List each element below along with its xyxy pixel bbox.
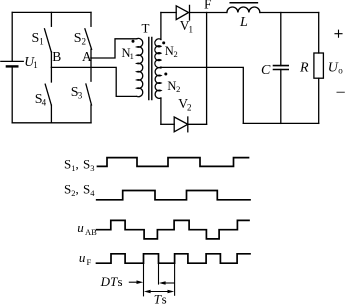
svg-text:R: R: [299, 61, 309, 76]
waveform S1 S3: [98, 158, 249, 167]
wire bottom rail left bridge: [12, 122, 91, 124]
wire V1 cathode to L: [190, 12, 227, 14]
svg-text:N: N: [167, 79, 176, 93]
wire top rail left bridge: [12, 11, 91, 13]
wire left rail lower: [11, 66, 13, 122]
svg-text:2: 2: [176, 84, 180, 94]
svg-text:T: T: [154, 292, 162, 306]
arrowhead Ts right: [168, 290, 175, 294]
wire node A to primary top: [91, 39, 137, 58]
battery U1 long plate: [1, 60, 24, 62]
waveform label uF: [79, 250, 92, 267]
svg-text:u: u: [79, 250, 86, 265]
svg-text:S: S: [64, 182, 71, 197]
DTs right arrow: [162, 282, 175, 284]
inductor L: [227, 3, 260, 13]
capacitor C: [274, 13, 289, 124]
dot secondary upper: [162, 41, 165, 44]
wire V2 cathode to F: [188, 123, 207, 125]
resistor R: [314, 13, 324, 124]
svg-text:s: s: [118, 274, 123, 289]
svg-text:1: 1: [130, 51, 134, 61]
svg-text:N: N: [165, 44, 174, 58]
waveform uAB: [97, 220, 249, 239]
svg-text:2: 2: [187, 103, 192, 113]
svg-text:u: u: [77, 220, 84, 235]
svg-text:1: 1: [189, 25, 194, 35]
svg-text:1: 1: [39, 37, 44, 47]
svg-text:L: L: [239, 15, 248, 30]
svg-text:F: F: [87, 257, 92, 267]
waveform labels row 1: S1, S3: [64, 156, 94, 173]
svg-text:3: 3: [90, 163, 94, 173]
waveform label uAB: [77, 220, 97, 237]
Ts double arrow: [147, 291, 172, 293]
svg-text:,: ,: [76, 156, 79, 171]
wire V2 anode: [161, 123, 174, 125]
label Ts: [154, 292, 167, 306]
svg-text:S: S: [64, 156, 71, 171]
svg-text:2: 2: [82, 37, 87, 47]
svg-text:4: 4: [90, 188, 95, 198]
wire center tap to output negative: [161, 67, 243, 123]
waveform S2 S4: [97, 191, 250, 200]
transformer secondary winding N2 upper: [155, 39, 161, 68]
svg-text:S: S: [32, 31, 40, 46]
waveform uF: [97, 254, 251, 263]
wire L to top right corner: [260, 12, 319, 14]
svg-text:S: S: [83, 182, 90, 197]
transformer core: [149, 37, 152, 99]
wire V1 anode: [161, 12, 176, 14]
arrowhead Ts left: [144, 290, 151, 294]
svg-text:S: S: [83, 156, 90, 171]
svg-text:A: A: [82, 49, 92, 64]
svg-text:2: 2: [174, 49, 178, 59]
minus sign output: [337, 91, 344, 93]
svg-text:T: T: [142, 21, 150, 36]
dot secondary lower: [164, 73, 167, 76]
switch S3: [86, 58, 92, 123]
svg-text:,: ,: [76, 182, 79, 197]
switch S1: [45, 12, 52, 67]
dot primary: [132, 40, 135, 43]
arrowhead DTs right: [159, 281, 166, 285]
dimension line at Ts end: [174, 263, 176, 296]
battery U1 short plate: [7, 65, 17, 67]
svg-text:S: S: [74, 31, 82, 46]
plus sign output: [335, 30, 342, 37]
svg-text:1: 1: [33, 60, 38, 70]
svg-text:U: U: [328, 60, 339, 75]
svg-text:o: o: [338, 66, 343, 76]
waveform labels row 2: S2, S4: [64, 182, 95, 199]
svg-text:F: F: [204, 0, 212, 11]
diode V2: [174, 117, 188, 132]
svg-text:4: 4: [42, 98, 47, 108]
svg-text:B: B: [52, 49, 61, 64]
svg-text:AB: AB: [85, 227, 97, 237]
transformer secondary winding N2 lower: [155, 68, 161, 99]
wire left rail upper: [11, 12, 13, 61]
wire bottom output rail: [243, 122, 318, 124]
arrowhead DTs: [137, 280, 144, 284]
transformer primary winding N1: [137, 38, 143, 96]
svg-text:DT: DT: [100, 274, 118, 289]
wire secondary bottom lead: [160, 98, 162, 124]
svg-text:s: s: [162, 292, 167, 306]
label DTs: [100, 274, 123, 289]
dimension line at DTs end: [158, 263, 160, 284]
svg-text:C: C: [261, 63, 271, 78]
node F vertical wire: [206, 13, 208, 125]
diode V1: [176, 5, 189, 20]
DTs arrow: [129, 281, 140, 283]
wire node B to primary bottom: [51, 67, 136, 96]
dimension line at DTs start: [143, 263, 145, 296]
switch S2: [85, 12, 92, 58]
svg-text:3: 3: [78, 91, 83, 101]
switch S4: [45, 67, 51, 122]
wire secondary top lead: [160, 13, 162, 40]
